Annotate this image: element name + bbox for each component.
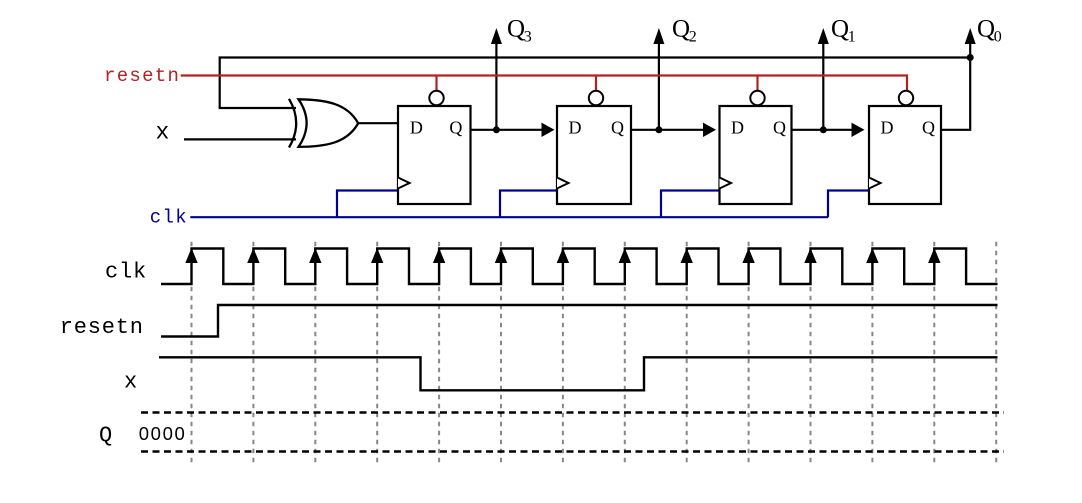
svg-text:x: x — [124, 369, 138, 394]
svg-text:3: 3 — [524, 29, 532, 46]
svg-text:D: D — [410, 118, 423, 138]
svg-text:clk: clk — [150, 207, 188, 229]
svg-text:D: D — [881, 118, 894, 138]
svg-text:0000: 0000 — [139, 423, 187, 444]
svg-text:Q: Q — [449, 118, 462, 138]
svg-text:D: D — [569, 118, 582, 138]
svg-text:Q: Q — [977, 16, 995, 43]
svg-text:2: 2 — [689, 29, 697, 46]
svg-text:1: 1 — [848, 29, 856, 46]
svg-text:clk: clk — [105, 260, 147, 285]
svg-text:Q: Q — [922, 118, 935, 138]
svg-text:Q: Q — [773, 118, 786, 138]
svg-text:Q: Q — [611, 118, 624, 138]
svg-text:Q: Q — [507, 16, 525, 43]
svg-text:Q: Q — [672, 16, 690, 43]
svg-text:Q: Q — [99, 423, 113, 448]
svg-text:D: D — [731, 118, 744, 138]
svg-text:0: 0 — [994, 29, 1002, 46]
svg-text:x: x — [156, 119, 170, 145]
svg-text:resetn: resetn — [60, 315, 144, 340]
svg-text:Q: Q — [831, 16, 849, 43]
svg-text:resetn: resetn — [104, 65, 180, 87]
